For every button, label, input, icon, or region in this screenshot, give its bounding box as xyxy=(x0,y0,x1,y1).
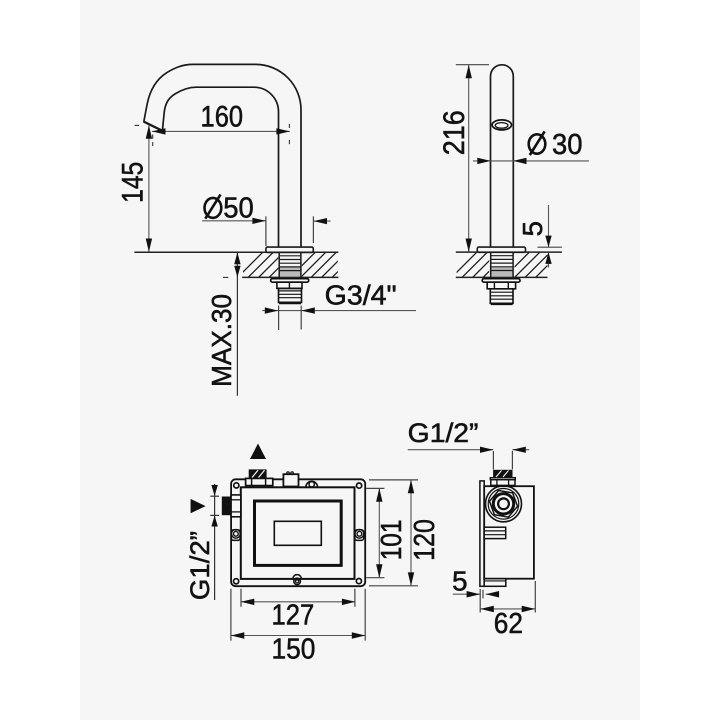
top dome screw xyxy=(306,481,318,487)
spout tip end face xyxy=(144,122,163,131)
pipe front view with dome top xyxy=(491,65,514,247)
deck bottom line (right view) xyxy=(456,276,548,278)
bottom middle screw xyxy=(293,575,302,579)
deck hatching left of thread xyxy=(236,251,359,279)
svg-text:120: 120 xyxy=(409,519,441,561)
svg-text:160: 160 xyxy=(201,101,244,134)
deck hatching (right view) xyxy=(450,251,562,279)
side top fitting flange xyxy=(490,478,515,480)
thread between deck (left view) xyxy=(279,267,300,276)
flange left view xyxy=(266,247,313,252)
svg-text:216: 216 xyxy=(438,110,471,155)
svg-text:G1/2”: G1/2” xyxy=(185,531,215,600)
dimension 5 (plate side) xyxy=(453,593,480,595)
dimension 150 xyxy=(231,635,365,637)
dimension 216 xyxy=(468,65,470,251)
dimension 120 xyxy=(410,480,412,585)
dimension 5 (flange thickness right view) xyxy=(548,205,550,247)
deck top line (right view) xyxy=(456,251,562,253)
display frame xyxy=(255,501,342,565)
washer under deck (right view) xyxy=(482,279,520,283)
mounting plate xyxy=(231,479,365,586)
dimension 101 xyxy=(378,489,380,578)
svg-text:145: 145 xyxy=(116,162,149,203)
connector small dimension with G1/2 label xyxy=(214,484,216,600)
svg-text:MAX.30: MAX.30 xyxy=(206,294,237,387)
svg-text:101: 101 xyxy=(376,520,408,561)
G3/4 thread stem (left view) xyxy=(279,288,302,302)
side bottom tab xyxy=(484,579,506,587)
left mid mounting ear xyxy=(231,530,240,541)
svg-text:5: 5 xyxy=(517,221,548,237)
dimension 160 xyxy=(152,130,290,132)
side top fitting thread (black) xyxy=(493,470,512,478)
corner screw holes xyxy=(234,483,239,488)
dimension diameter 30 xyxy=(473,160,589,162)
dimension G3/4 xyxy=(262,310,416,312)
svg-text:30: 30 xyxy=(552,129,583,161)
dimension G1/2 top xyxy=(408,449,494,451)
svg-text:G1/2”: G1/2” xyxy=(408,418,479,448)
washer under deck (left view) xyxy=(271,279,309,283)
triangle marker right xyxy=(191,499,206,513)
right mid mounting ear xyxy=(355,530,364,541)
dimension diameter 50 xyxy=(202,220,266,222)
left inlet fitting base xyxy=(246,478,273,485)
deck bottom line xyxy=(242,276,338,278)
dimension 127 xyxy=(241,601,355,603)
diameter 30 label xyxy=(529,134,546,153)
left connector stack xyxy=(231,495,241,517)
side body xyxy=(484,486,534,579)
svg-text:62: 62 xyxy=(494,608,523,640)
svg-text:50: 50 xyxy=(223,192,254,224)
side inlet circle group xyxy=(486,486,522,522)
dimension 62 xyxy=(480,608,535,610)
svg-text:150: 150 xyxy=(271,634,315,666)
svg-text:5: 5 xyxy=(452,565,468,596)
spout outer profile xyxy=(144,64,301,247)
dimension 145 xyxy=(148,126,150,252)
nut (right view) xyxy=(487,282,515,289)
body xyxy=(241,487,355,579)
spout inner profile xyxy=(162,87,278,247)
dimension MAX.30 xyxy=(236,253,238,396)
side plate xyxy=(480,481,484,586)
deck top line xyxy=(134,251,338,253)
nut (left view) xyxy=(277,282,302,288)
aerator ellipse xyxy=(492,120,511,130)
side top fitting hex xyxy=(491,480,515,486)
left inlet fitting thread (black) xyxy=(249,469,267,478)
svg-text:G3/4": G3/4" xyxy=(325,279,397,310)
flange (right view) xyxy=(477,247,525,252)
middle fitting xyxy=(283,474,298,486)
thread between deck (right view) xyxy=(491,267,513,276)
diameter 50 label xyxy=(205,198,222,218)
triangle marker up xyxy=(250,444,266,460)
thread stem (right view) xyxy=(490,289,513,304)
side mid tab xyxy=(484,527,506,538)
display window xyxy=(274,521,321,545)
svg-text:127: 127 xyxy=(272,599,315,631)
